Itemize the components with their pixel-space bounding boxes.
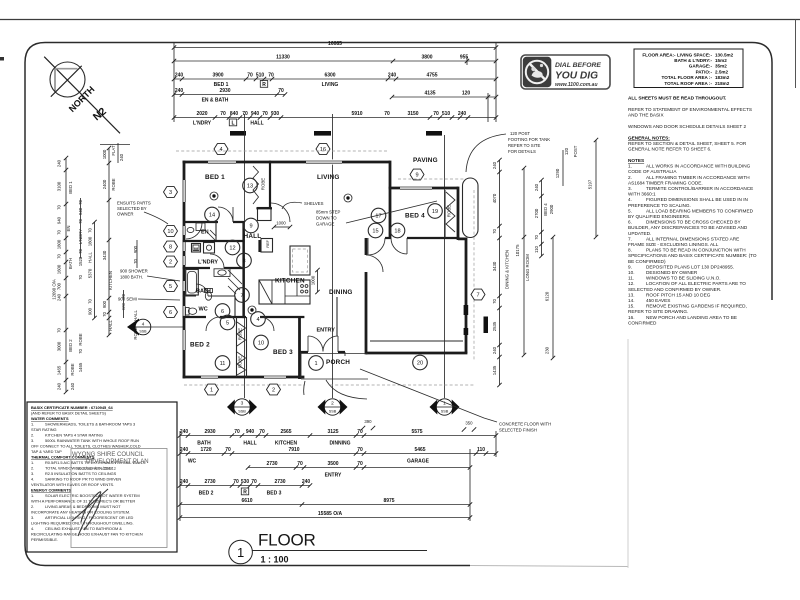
svg-text:(AND REFER TO BASIX DETAIL SHE: (AND REFER TO BASIX DETAIL SHEETS)	[31, 411, 107, 416]
svg-text:AS1684 TIMBER FRAMING CODE.: AS1684 TIMBER FRAMING CODE.	[628, 180, 703, 185]
svg-text:2700: 2700	[534, 208, 539, 218]
svg-text:130.5m2: 130.5m2	[715, 52, 734, 57]
svg-text:16085: 16085	[328, 41, 342, 47]
bath shower hatch	[228, 270, 242, 294]
wall left exterior	[183, 161, 186, 379]
svg-text:16.: 16.	[628, 315, 635, 320]
svg-text:ENERGY COMMENTS: ENERGY COMMENTS	[31, 488, 72, 493]
svg-text:HALL: HALL	[88, 252, 93, 263]
svg-text:940: 940	[57, 216, 62, 224]
wall bed2/bed3 top with door gaps	[183, 316, 305, 318]
ensuite note	[117, 201, 168, 225]
bed4 robe zigzag	[446, 192, 455, 232]
concrete floor note	[360, 369, 551, 433]
svg-text:EN: EN	[66, 226, 71, 232]
svg-text:SHELVES: SHELVES	[304, 201, 324, 206]
svg-text:7: 7	[240, 293, 243, 299]
svg-text:900 SEMI: 900 SEMI	[118, 297, 137, 302]
svg-text:AND THE BASIX: AND THE BASIX	[628, 113, 664, 118]
dial before you dig logo	[521, 55, 610, 89]
svg-text:14: 14	[209, 213, 215, 219]
svg-text:GENERAL NOTE REFER TO SHEET 6.: GENERAL NOTE REFER TO SHEET 6.	[628, 147, 711, 152]
svg-text:ROBE: ROBE	[70, 363, 75, 375]
svg-text:DINING & KITCHEN: DINING & KITCHEN	[505, 250, 510, 289]
robe bed1 right wall	[269, 161, 271, 207]
svg-text:8: 8	[169, 245, 172, 251]
svg-text:SSB: SSB	[441, 410, 449, 414]
svg-text:NORTH: NORTH	[67, 84, 97, 114]
bath vanity	[214, 269, 230, 277]
svg-text:OWNER: OWNER	[117, 212, 133, 217]
svg-text:PREFERENCE TO SCALING.: PREFERENCE TO SCALING.	[628, 203, 691, 208]
svg-text:WITH A PERFORMANCE OF 31 TO 35: WITH A PERFORMANCE OF 31 TO 35 REC'S OR …	[31, 499, 135, 504]
svg-text:5: 5	[169, 284, 172, 290]
svg-text:70: 70	[78, 349, 83, 354]
refrigerator box	[261, 239, 273, 253]
robe column walls	[237, 317, 247, 377]
svg-text:240: 240	[302, 479, 311, 485]
door tag circles	[243, 178, 258, 193]
svg-text:VENTILATOR WITH EAVES OR ROOF: VENTILATOR WITH EAVES OR ROOF VENTS.	[31, 482, 114, 487]
svg-text:1290: 1290	[555, 168, 560, 178]
left window hexagon 8	[164, 241, 178, 252]
door bed4 arc 18	[391, 238, 407, 254]
svg-text:6: 6	[169, 310, 172, 316]
svg-text:OFF CONNECT TO ALL TOILETS, CL: OFF CONNECT TO ALL TOILETS, CLOTHES WASH…	[31, 444, 141, 449]
svg-text:230: 230	[545, 346, 550, 354]
window W2 left	[181, 256, 186, 265]
svg-text:BE CONFIRMED): BE CONFIRMED)	[628, 259, 666, 264]
svg-text:CONCRETE FLOOR WITH: CONCRETE FLOOR WITH	[499, 422, 551, 427]
wall lndry/bath divider	[183, 267, 245, 269]
wall kitchen/ref stub	[258, 240, 260, 252]
svg-text:240: 240	[57, 293, 62, 301]
door bed3 arc	[260, 317, 274, 331]
svg-text:3150: 3150	[407, 111, 418, 117]
svg-text:R: R	[262, 82, 266, 88]
svg-text:13: 13	[247, 184, 253, 190]
wall en/lndry divider	[183, 240, 245, 242]
svg-text:BED 3: BED 3	[267, 491, 282, 497]
svg-text:450 EAVES: 450 EAVES	[646, 298, 670, 303]
svg-text:70: 70	[102, 312, 107, 317]
window tag hexagon 1 bottom	[205, 384, 219, 395]
svg-text:35m2: 35m2	[715, 64, 727, 69]
svg-text:PORCH: PORCH	[326, 359, 350, 366]
left window hexagon 6	[164, 307, 178, 318]
svg-text:240: 240	[388, 73, 397, 79]
svg-text:240: 240	[492, 161, 497, 169]
svg-text:70: 70	[268, 73, 274, 79]
left window hexagon 3	[164, 187, 178, 198]
svg-text:2: 2	[272, 388, 275, 394]
bottom dims row2	[178, 421, 498, 465]
svg-text:240: 240	[119, 153, 124, 161]
section flag 4 left	[127, 319, 183, 336]
svg-text:SSB: SSB	[238, 410, 246, 414]
svg-text:SELECTED FINISH: SELECTED FINISH	[499, 428, 537, 433]
dim 1000 hall	[272, 221, 292, 230]
svg-text:1435: 1435	[492, 365, 497, 375]
svg-text:5197: 5197	[588, 179, 593, 189]
svg-text:2: 2	[169, 260, 172, 266]
svg-text:3.: 3.	[31, 515, 34, 520]
svg-text:15585 O/A: 15585 O/A	[318, 511, 343, 517]
svg-text:3125: 3125	[327, 429, 338, 435]
svg-text:218m2: 218m2	[715, 81, 730, 86]
svg-text:6300: 6300	[324, 73, 335, 79]
svg-text:DEPOSITED PLANS LOT 130 DP2489: DEPOSITED PLANS LOT 130 DP248955.	[646, 264, 734, 269]
wall entry side column	[336, 297, 338, 336]
svg-text:110: 110	[477, 447, 485, 453]
svg-text:REMOVE EXISTING GARDENS IF REQ: REMOVE EXISTING GARDENS IF REQUIRED,	[646, 304, 747, 309]
svg-text:2930: 2930	[219, 88, 230, 94]
svg-text:BED 2: BED 2	[199, 491, 214, 497]
svg-text:3430: 3430	[492, 261, 497, 271]
sheet faint right-bottom edge	[627, 339, 629, 568]
svg-text:SPECIFICATIONS AND BASIX CERTI: SPECIFICATIONS AND BASIX CERTIFICATE NUM…	[628, 253, 757, 258]
council stamp	[71, 449, 167, 548]
wall bottom exterior	[183, 376, 305, 379]
svg-text:NEW PORCH AND LANDING AREA TO: NEW PORCH AND LANDING AREA TO BE	[646, 315, 737, 320]
svg-text:FIGURED DIMENSIONS SHALL BE US: FIGURED DIMENSIONS SHALL BE USED IN IN	[646, 197, 748, 202]
svg-text:120: 120	[564, 147, 569, 155]
svg-text:ALL SHEETS MUST BE READ THROUG: ALL SHEETS MUST BE READ THROUGOUT.	[628, 96, 726, 101]
window tag hexagon 7 right	[471, 289, 485, 300]
svg-text:PAVING: PAVING	[413, 157, 438, 164]
window W10 left	[181, 226, 186, 235]
svg-text:6610: 6610	[241, 498, 252, 504]
svg-text:2020: 2020	[196, 111, 207, 117]
svg-text:2.: 2.	[31, 433, 34, 438]
window tag hexagon 9 paving	[410, 169, 424, 180]
svg-text:ALL FRAMING TIMBER IN ACCORDAN: ALL FRAMING TIMBER IN ACCORDANCE WITH	[646, 175, 750, 180]
shower note	[120, 269, 180, 282]
svg-text:2730: 2730	[204, 479, 215, 485]
window W16 top	[306, 159, 342, 164]
svg-text:1800 BATH.: 1800 BATH.	[120, 275, 143, 280]
right dim chain A	[492, 158, 502, 387]
svg-text:BED 2: BED 2	[190, 342, 210, 349]
bed4 robe wall	[444, 190, 446, 238]
wall garage bottom exterior	[366, 352, 467, 355]
wall garage left with door opening	[365, 238, 368, 354]
svg-text:BED 3: BED 3	[273, 349, 293, 356]
svg-text:ENSUITS PARTS: ENSUITS PARTS	[117, 201, 151, 206]
svg-text:2730: 2730	[266, 461, 277, 467]
window W8 left	[181, 242, 186, 251]
svg-text:70: 70	[492, 229, 497, 234]
wall entry door jambs	[300, 351, 345, 353]
svg-text:7910: 7910	[288, 447, 299, 453]
window tag hexagon 2 bottom	[267, 384, 281, 395]
svg-text:GARAGE: GARAGE	[316, 222, 335, 227]
robe bed1 zigzag	[253, 166, 259, 204]
dim row 16085	[174, 47, 496, 49]
svg-text:8: 8	[242, 259, 245, 265]
svg-text:390: 390	[364, 419, 372, 424]
svg-text:930: 930	[271, 111, 280, 117]
svg-text:3800: 3800	[421, 55, 432, 61]
svg-text:ROBE: ROBE	[133, 327, 138, 339]
svg-text:ROBE: ROBE	[78, 333, 83, 345]
svg-text:LOCATION OF ALL ELECTRIC PARTS: LOCATION OF ALL ELECTRIC PARTS ARE TO	[646, 281, 746, 286]
bottom dims row1	[178, 419, 498, 447]
svg-text:NOTES: NOTES	[628, 158, 644, 163]
svg-text:6120: 6120	[545, 291, 550, 301]
door lndry arc	[210, 254, 224, 268]
svg-text:REF: REF	[266, 239, 270, 247]
svg-text:TOTAL ROOF AREA :-: TOTAL ROOF AREA :-	[664, 81, 712, 86]
window tag hexagon 4	[214, 144, 228, 155]
eave dashed outline	[176, 151, 474, 385]
svg-text:1720: 1720	[200, 447, 211, 453]
svg-text:70: 70	[384, 111, 390, 117]
scan page edge right	[795, 20, 797, 89]
basix box	[27, 402, 177, 552]
svg-text:BASIX CERTIFICATE NUMBER :: BASIX CERTIFICATE NUMBER : 6710945_64	[31, 405, 113, 410]
svg-text:510: 510	[442, 111, 451, 117]
sheet faint bottom edge	[470, 566, 628, 567]
svg-text:70: 70	[297, 461, 303, 467]
svg-text:1: 1	[210, 388, 213, 394]
svg-text:2730: 2730	[274, 479, 285, 485]
bottom dims row3 entry	[246, 461, 472, 479]
svg-text:SSB: SSB	[139, 330, 147, 334]
left dim top mini lines	[100, 143, 130, 163]
dim row 11330 3800 955	[174, 60, 496, 62]
window W4b left bed2	[181, 330, 186, 350]
svg-text:R2.5 INSULATION BATTS TO CEILI: R2.5 INSULATION BATTS TO CEILINGS	[45, 471, 117, 476]
svg-text:3000: 3000	[57, 341, 62, 351]
svg-text:ALL WORKS IN ACCORDANCE WITH B: ALL WORKS IN ACCORDANCE WITH BUILDING	[646, 164, 751, 169]
svg-text:www.1100.com.au: www.1100.com.au	[555, 82, 598, 88]
svg-text:3: 3	[169, 190, 172, 196]
svg-text:1000: 1000	[311, 275, 316, 285]
robe zigzag bed3	[237, 352, 246, 375]
svg-text:70: 70	[88, 299, 93, 304]
svg-text:240: 240	[175, 88, 184, 94]
svg-text:SELECTED BY: SELECTED BY	[117, 206, 147, 211]
north symbol	[44, 57, 120, 134]
svg-text:4070: 4070	[492, 193, 497, 203]
dim 1000 dining rotated	[311, 268, 320, 294]
svg-text:HALL: HALL	[250, 121, 263, 127]
svg-text:240: 240	[180, 429, 189, 435]
svg-text:ROBE: ROBE	[111, 178, 116, 190]
svg-text:840: 840	[230, 111, 239, 117]
door bed1 arc	[218, 207, 233, 222]
svg-text:3500: 3500	[327, 461, 338, 467]
wall paving/bed4	[389, 187, 458, 190]
window garage right stubs	[464, 305, 469, 315]
svg-text:KITCHEN: KITCHEN	[275, 278, 305, 285]
svg-text:3.: 3.	[31, 471, 34, 476]
laundry tub	[204, 243, 215, 254]
svg-text:70: 70	[57, 328, 62, 333]
svg-text:DOWN TO: DOWN TO	[316, 216, 337, 221]
window W9 paving	[400, 185, 432, 190]
window W5 left	[181, 281, 186, 291]
svg-text:L: L	[231, 120, 234, 126]
wall top exterior	[183, 161, 391, 164]
left dim room names col	[66, 181, 83, 376]
svg-text:2400: 2400	[102, 179, 107, 189]
svg-text:700: 700	[57, 282, 62, 290]
svg-text:4.: 4.	[31, 526, 34, 531]
svg-text:5: 5	[226, 321, 229, 327]
svg-text:5465: 5465	[414, 447, 425, 453]
section flag 2 bottom	[318, 399, 348, 415]
svg-text:70: 70	[357, 461, 363, 467]
entry double door arcs	[308, 336, 338, 352]
scan mark left edge	[0, 57, 4, 61]
svg-text:ENTRY: ENTRY	[325, 473, 342, 479]
svg-text:1.: 1.	[31, 493, 34, 498]
svg-text:70: 70	[225, 447, 231, 453]
left window hexagon 5	[164, 281, 178, 292]
svg-text:70: 70	[78, 275, 83, 280]
svg-text:KITCHEN TAPS 4 STAR RATING: KITCHEN TAPS 4 STAR RATING	[45, 433, 103, 438]
svg-text:70: 70	[242, 111, 248, 117]
left window hexagon 2	[164, 256, 178, 267]
wall bed3 right / entry	[298, 317, 301, 379]
svg-text:WYONG SHIRE COUNCIL: WYONG SHIRE COUNCIL	[72, 452, 145, 458]
window W1 bottom	[201, 374, 218, 379]
svg-text:15: 15	[372, 229, 378, 235]
svg-text:13.: 13.	[628, 292, 635, 297]
svg-text:1.: 1.	[31, 422, 34, 427]
left dim chain kitchen	[102, 145, 138, 337]
svg-text:10: 10	[258, 341, 264, 347]
door bed4 arc 15	[368, 238, 385, 255]
door en arc	[186, 223, 202, 239]
svg-text:1: 1	[314, 361, 317, 367]
svg-text:PERMISSIBLE.: PERMISSIBLE.	[31, 537, 58, 542]
wall stub right of garage	[484, 317, 489, 334]
section flag 1 bottom	[430, 399, 460, 415]
bottom dims row4	[178, 479, 312, 497]
svg-text:1800: 1800	[57, 239, 62, 249]
door bed2 arc	[206, 317, 220, 331]
right dim chain bed4	[534, 150, 563, 258]
window W6 left	[181, 306, 186, 316]
svg-text:85mm STEP: 85mm STEP	[316, 210, 340, 215]
svg-text:70: 70	[247, 73, 253, 79]
svg-text:4.: 4.	[628, 197, 632, 202]
svg-text:2.: 2.	[31, 466, 34, 471]
svg-text:YOU DIG: YOU DIG	[555, 71, 598, 82]
svg-text:11.: 11.	[628, 276, 634, 281]
svg-text:70: 70	[433, 111, 439, 117]
svg-text:WINDOWS AND DOOR SCHEDULE DETA: WINDOWS AND DOOR SCHEDULE DETAILS SHEET …	[628, 124, 746, 129]
svg-text:1.: 1.	[31, 460, 34, 465]
svg-text:TOTAL FLOOR AREA :-: TOTAL FLOOR AREA :-	[662, 75, 713, 80]
bath toilet	[205, 289, 213, 301]
svg-text:70: 70	[57, 205, 62, 210]
svg-text:FOR DETAILS: FOR DETAILS	[508, 149, 536, 154]
ensuite fixtures	[187, 223, 216, 240]
svg-text:2565: 2565	[280, 429, 291, 435]
section line B	[332, 114, 334, 398]
svg-text:RECIRCULATING RANGE HOOD EXHAU: RECIRCULATING RANGE HOOD EXHAUST FAN TO …	[31, 532, 143, 537]
svg-text:70: 70	[220, 111, 226, 117]
wall bed4 left	[389, 187, 392, 239]
svg-text:L'NDRY: L'NDRY	[198, 260, 218, 266]
svg-text:1800: 1800	[88, 236, 93, 246]
dim row 240 3900 70 510 70 6300 240 4755	[174, 78, 496, 80]
svg-text:18: 18	[394, 229, 400, 235]
semi note	[118, 297, 180, 302]
svg-text:12.: 12.	[628, 281, 635, 286]
right dim chain post 5197	[564, 138, 598, 239]
svg-text:FOOTING FOR TANK: FOOTING FOR TANK	[508, 137, 550, 142]
ceiling fan hall2	[248, 306, 256, 314]
svg-text:10175: 10175	[515, 244, 520, 257]
floor area table	[634, 49, 743, 88]
window W2b bottom	[264, 374, 286, 379]
svg-text:70: 70	[88, 228, 93, 233]
svg-text:KITCHEN: KITCHEN	[275, 441, 298, 447]
title circle 1	[229, 540, 253, 564]
svg-text:2535: 2535	[492, 321, 497, 331]
svg-text:4: 4	[142, 322, 145, 327]
svg-text:BUILDER, ANY DISCREPANCIES TO: BUILDER, ANY DISCREPANCIES TO BE ADVISED…	[628, 225, 748, 230]
svg-text:FRAME SIZE - EXCLUDING LININGS: FRAME SIZE - EXCLUDING LININGS. ALL	[628, 242, 719, 247]
svg-text:4: 4	[219, 147, 222, 153]
svg-text:5.: 5.	[628, 208, 632, 213]
section marker top 4	[230, 131, 246, 136]
svg-text:SHOWERHEADS, TOILETS & BATHROO: SHOWERHEADS, TOILETS & BATHROOM TAPS 3	[45, 422, 135, 427]
bottom dims row6 OA	[178, 431, 496, 521]
svg-text:2930: 2930	[204, 429, 215, 435]
wc toilet	[186, 308, 197, 316]
svg-text:BATH: BATH	[68, 258, 73, 269]
door wc arc	[196, 284, 208, 296]
svg-text:HALL: HALL	[243, 441, 256, 447]
svg-text:ROBE: ROBE	[238, 328, 243, 340]
svg-text:11330: 11330	[276, 55, 290, 61]
svg-text:LONG ROOM: LONG ROOM	[525, 254, 530, 281]
kitchen island	[290, 246, 310, 275]
svg-text:PATIO:-: PATIO:-	[696, 69, 713, 74]
svg-text:BED 1: BED 1	[68, 181, 73, 194]
laundry washer W	[192, 244, 201, 253]
svg-text:2.: 2.	[628, 175, 632, 180]
svg-text:70: 70	[357, 447, 363, 453]
svg-text:BED 4: BED 4	[543, 203, 548, 216]
svg-text:CEILING EXHAUST FAN TO BATHROO: CEILING EXHAUST FAN TO BATHROOM &	[45, 526, 122, 531]
notes list	[628, 164, 757, 326]
door living arc	[271, 203, 290, 222]
svg-text:8975: 8975	[383, 498, 394, 504]
svg-text:DIAL BEFORE: DIAL BEFORE	[555, 62, 601, 69]
kitchen bench	[259, 280, 310, 304]
svg-text:940: 940	[251, 111, 260, 117]
garage door line	[370, 340, 463, 342]
ceiling fan bed1	[210, 192, 218, 200]
svg-text:6: 6	[221, 309, 224, 315]
top dimension block	[172, 41, 498, 127]
svg-text:DESIGNED BY OWNER: DESIGNED BY OWNER	[646, 270, 698, 275]
svg-text:3900: 3900	[212, 73, 223, 79]
porch slab	[300, 352, 368, 379]
wall bath/wc divider	[183, 295, 235, 297]
wall living/paving jog	[389, 161, 392, 188]
bottom dims row5	[178, 498, 472, 507]
svg-text:240: 240	[534, 183, 539, 191]
svg-text:1465: 1465	[78, 362, 83, 372]
